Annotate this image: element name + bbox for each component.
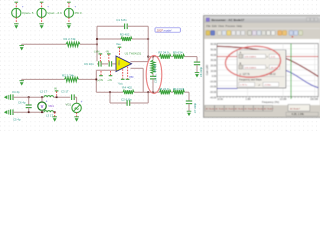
svg-text:U1 THS4131: U1 THS4131	[125, 52, 142, 56]
wire top rail	[147, 56, 149, 58]
svg-text:R3 402: R3 402	[120, 32, 130, 36]
pin Vcc (bottom)	[122, 69, 124, 79]
svg-text:L2 1T: L2 1T	[40, 90, 47, 94]
resistor R8 24.9	[160, 90, 172, 94]
svg-text:10.0k: 10.0k	[217, 98, 224, 101]
svg-text:1.78 Tx: 1.78 Tx	[240, 85, 248, 87]
svg-text:C4 4p: C4 4p	[12, 90, 20, 94]
jumper pin (-)IN	[99, 53, 103, 55]
node junction	[96, 43, 98, 45]
capacitor C9 10n	[97, 63, 99, 65]
phase curve (blue) right segment	[286, 71, 318, 88]
svg-text:10.00: 10.00	[210, 71, 216, 73]
ground at R1 left	[21, 44, 23, 45]
voltage source Vpwr+ 5	[12, 2, 34, 23]
svg-text:R6 100: R6 100	[153, 63, 157, 72]
svg-text:AC Bode7: AC Bode7	[264, 107, 274, 110]
wire right vertical of top loop	[147, 26, 149, 61]
jumper pin (+)IN	[100, 71, 102, 75]
wire left vertical of top loop	[96, 26, 98, 61]
red cursor line	[217, 56, 318, 58]
svg-text:Vpwr+ 5: Vpwr+ 5	[22, 11, 34, 15]
ground under source	[14, 24, 19, 29]
svg-text:40.00: 40.00	[210, 55, 216, 57]
resistor R2 2.74k	[65, 77, 79, 81]
svg-text:0.00: 0.00	[212, 76, 217, 78]
resistor R3 402	[97, 38, 121, 40]
wire	[54, 111, 55, 113]
plot frame	[217, 44, 318, 97]
resistor R10 634	[173, 90, 185, 94]
capacitor C10 (vertical)	[152, 74, 154, 77]
svg-text:C6 4p: C6 4p	[18, 101, 26, 105]
pin Vee (top)	[118, 46, 122, 48]
pin PD (bottom)	[127, 67, 129, 79]
svg-text:30.00: 30.00	[210, 60, 216, 62]
capacitor C3 1T	[72, 94, 75, 100]
wire vertical input node	[95, 70, 97, 92]
capacitor C4 4p	[11, 94, 13, 100]
voltage source PD 0	[64, 2, 81, 23]
svg-text:Frequency (Hz): Frequency (Hz)	[262, 101, 279, 104]
source VG1	[72, 103, 81, 112]
ground at R2 left	[21, 79, 23, 80]
svg-text:60.00: 60.00	[210, 44, 216, 46]
wire	[54, 96, 71, 98]
ground under VG1	[76, 113, 78, 117]
svg-text:50.00: 50.00	[210, 50, 216, 52]
svg-text:-10.00: -10.00	[210, 81, 217, 83]
svg-text:Vpwr- -3.3: Vpwr- -3.3	[47, 11, 62, 15]
svg-text:Frequency and Slope: Frequency and Slope	[239, 79, 262, 82]
green cursor line	[290, 44, 292, 97]
annotation ellipse (schematic)	[146, 56, 162, 94]
svg-text:1.0M: 1.0M	[245, 98, 250, 101]
svg-text:C3 1T: C3 1T	[61, 90, 69, 94]
ground under source	[67, 24, 72, 29]
svg-text:(-)IN: (-)IN	[94, 50, 100, 54]
jumper pin IN	[55, 90, 59, 92]
gridlines	[217, 44, 318, 97]
svg-text:PD 0: PD 0	[75, 11, 82, 15]
svg-text:R1 2.74k: R1 2.74k	[64, 37, 77, 41]
svg-text:-40.00: -40.00	[210, 97, 217, 99]
svg-text:V: V	[41, 104, 44, 109]
svg-text:C8 330p: C8 330p	[199, 66, 203, 77]
svg-text:C2 6.8n: C2 6.8n	[121, 98, 132, 102]
svg-text:-2.01: -2.01	[270, 57, 276, 59]
wire bottom input	[96, 69, 116, 71]
wire op-amp out-	[131, 67, 144, 69]
inductor L2 1T	[44, 96, 54, 98]
op-amp U1 THS4131	[116, 56, 132, 72]
x axis labels	[217, 98, 318, 101]
svg-text:R4 402: R4 402	[122, 86, 132, 90]
svg-text:-2.24m: -2.24m	[264, 85, 271, 87]
svg-text:AC Bode7: AC Bode7	[290, 107, 301, 110]
resistor R7 24.9	[160, 54, 172, 58]
svg-text:+IN: +IN	[107, 78, 111, 82]
svg-text:C5 4p: C5 4p	[13, 117, 21, 121]
svg-text:C7 330p: C7 330p	[193, 102, 197, 113]
gain curve (dark red)	[217, 46, 318, 76]
resistor R1 2.74k	[66, 42, 80, 46]
svg-text:R7 24.9: R7 24.9	[158, 51, 169, 55]
inductor L3 1T	[44, 111, 54, 113]
voltage source Vpwr- -3.3	[37, 2, 62, 23]
capacitor C2 6.8n	[109, 92, 111, 103]
svg-text:VM1: VM1	[48, 104, 54, 108]
plot client area	[204, 39, 320, 105]
phase curve (blue) left segment	[217, 87, 238, 89]
wire	[22, 43, 66, 45]
svg-text:File Edit View Process Hel: File Edit View Process Help	[206, 24, 242, 28]
svg-text:IN: IN	[54, 87, 57, 91]
svg-text:+: +	[46, 100, 48, 104]
svg-text:20.00: 20.00	[210, 65, 216, 67]
wire	[80, 43, 97, 45]
analysis window	[204, 16, 320, 118]
svg-text:Vee: Vee	[116, 42, 121, 46]
svg-text:100.0M: 100.0M	[310, 98, 318, 101]
wire bottom rail	[96, 91, 123, 93]
ground under lower rail	[54, 112, 56, 117]
annotation ellipse (plot)	[224, 45, 281, 80]
wire op-amp out+	[131, 61, 149, 63]
status bar	[204, 112, 320, 117]
diagram tabs	[205, 105, 214, 111]
resistor R4 402	[123, 90, 134, 94]
resistor R9 634	[173, 54, 185, 58]
capacitor C6 4p (vertical)	[28, 97, 30, 105]
toolbar	[204, 29, 320, 40]
voltmeter VM1	[41, 97, 43, 102]
menu bar	[204, 23, 320, 29]
svg-text:L3 1T: L3 1T	[46, 114, 53, 118]
capacitor C5 4p	[11, 109, 13, 115]
capacitor (second input cap)	[109, 61, 111, 66]
wire	[79, 78, 97, 80]
svg-text:-30.00: -30.00	[210, 92, 217, 94]
svg-text:2007 model: 2007 model	[156, 28, 172, 32]
jumper pin -IN	[107, 53, 111, 55]
capacitor C7 330p	[188, 92, 190, 101]
ground left of C4	[4, 95, 9, 100]
svg-text:-20.00: -20.00	[210, 87, 217, 89]
y axis labels	[210, 44, 217, 99]
note box 2007 model	[155, 28, 180, 32]
ground under source	[39, 24, 44, 29]
svg-text:Gain (dB): Gain (dB)	[206, 64, 209, 75]
svg-text:R10 634: R10 634	[173, 87, 185, 91]
svg-text:R9 634: R9 634	[173, 51, 183, 55]
svg-text:4.28, 1.04k: 4.28, 1.04k	[292, 113, 305, 116]
svg-text:-IN: -IN	[105, 50, 109, 54]
wire to VG1	[76, 97, 78, 103]
svg-text:(+)IN: (+)IN	[97, 78, 103, 82]
svg-text:VG1: VG1	[66, 103, 72, 107]
cursor info box	[237, 50, 286, 88]
wire	[22, 78, 65, 80]
svg-text:129.11MEG: 129.11MEG	[244, 67, 256, 69]
svg-text:129.11MEG: 129.11MEG	[244, 57, 256, 59]
resistor R6 100 (vertical)	[152, 57, 154, 61]
svg-text:+: +	[81, 100, 83, 104]
svg-text:R2 2.74k: R2 2.74k	[62, 74, 75, 78]
jumper pin +IN	[110, 71, 112, 75]
svg-text:PD: PD	[130, 75, 134, 79]
capacitor C1 6.8n	[97, 25, 125, 27]
svg-text:C1 6.8n: C1 6.8n	[116, 18, 127, 22]
svg-text:Bessemer - AC Bode17: Bessemer - AC Bode17	[211, 18, 244, 22]
ground left of C5	[4, 110, 9, 115]
svg-text:C10 1u: C10 1u	[154, 74, 158, 83]
capacitor C8 330p	[196, 57, 198, 63]
svg-text:FDA: FDA	[117, 60, 121, 65]
svg-text:10.0M: 10.0M	[280, 98, 287, 101]
svg-text:C9 10n: C9 10n	[84, 62, 94, 66]
